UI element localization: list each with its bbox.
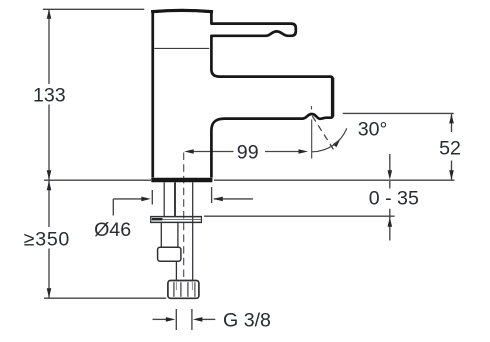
svg-text:30°: 30°	[358, 119, 388, 141]
svg-text:52: 52	[439, 137, 461, 159]
svg-text:133: 133	[33, 84, 66, 106]
svg-text:99: 99	[237, 141, 259, 163]
svg-text:Ø46: Ø46	[94, 219, 131, 241]
svg-text:0 - 35: 0 - 35	[369, 187, 419, 209]
svg-text:G 3/8: G 3/8	[223, 310, 271, 332]
svg-text:≥350: ≥350	[24, 229, 70, 251]
